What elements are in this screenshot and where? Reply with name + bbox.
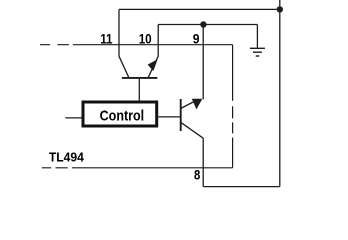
wire: pin 11 vertical (collector lead Q2)	[118, 9, 120, 56]
wire: Control output to Q1 base	[158, 116, 181, 118]
svg-text:9: 9	[193, 30, 200, 46]
node: junction dot top-right V+	[277, 6, 283, 12]
transistor Q1 (pins 8/9): base bar vertical	[180, 99, 182, 131]
wire: top rail pin11 to V+ node	[119, 8, 280, 10]
block: Control rectangle	[83, 102, 157, 126]
wire: pin 8 vertical (collector lead Q1)	[202, 138, 204, 186]
IC boundary: top dashed line	[40, 44, 233, 46]
wire: pin 9 vertical (emitter lead Q1)	[202, 25, 204, 100]
svg-text:TL494: TL494	[49, 150, 85, 165]
wire: ground stem	[256, 25, 258, 49]
transistor Q2: emitter arrow	[148, 59, 158, 71]
IC boundary: bottom dashed line	[42, 167, 233, 169]
transistor Q1: emitter arrow	[192, 99, 203, 110]
wire: rail pin10 to ground stem	[158, 24, 257, 26]
svg-text:11: 11	[100, 30, 113, 46]
transistor Q2 (pins 11/10): collector diagonal	[119, 56, 129, 77]
transistor Q1: collector diagonal	[181, 122, 204, 138]
transistor Q2: emitter diagonal	[148, 56, 158, 77]
wire: Q2 base lead down to Control	[138, 79, 140, 101]
transistor Q1: emitter diagonal	[181, 100, 197, 109]
wire: left lead into Control	[65, 117, 81, 119]
transistor Q2: base bar	[122, 77, 157, 79]
wire: right external vertical from top edge to bottom wire	[279, 0, 281, 187]
IC boundary: right dashed vertical	[232, 45, 234, 168]
node: junction dot pin9/ground rail	[200, 21, 206, 27]
svg-text:Control: Control	[100, 108, 145, 125]
ground symbol	[250, 48, 265, 56]
svg-text:8: 8	[194, 167, 200, 183]
svg-text:10: 10	[139, 30, 152, 46]
wire: pin 10 vertical (emitter lead Q2)	[157, 25, 159, 57]
wire: bottom wire pin8 to right vertical	[203, 186, 280, 188]
